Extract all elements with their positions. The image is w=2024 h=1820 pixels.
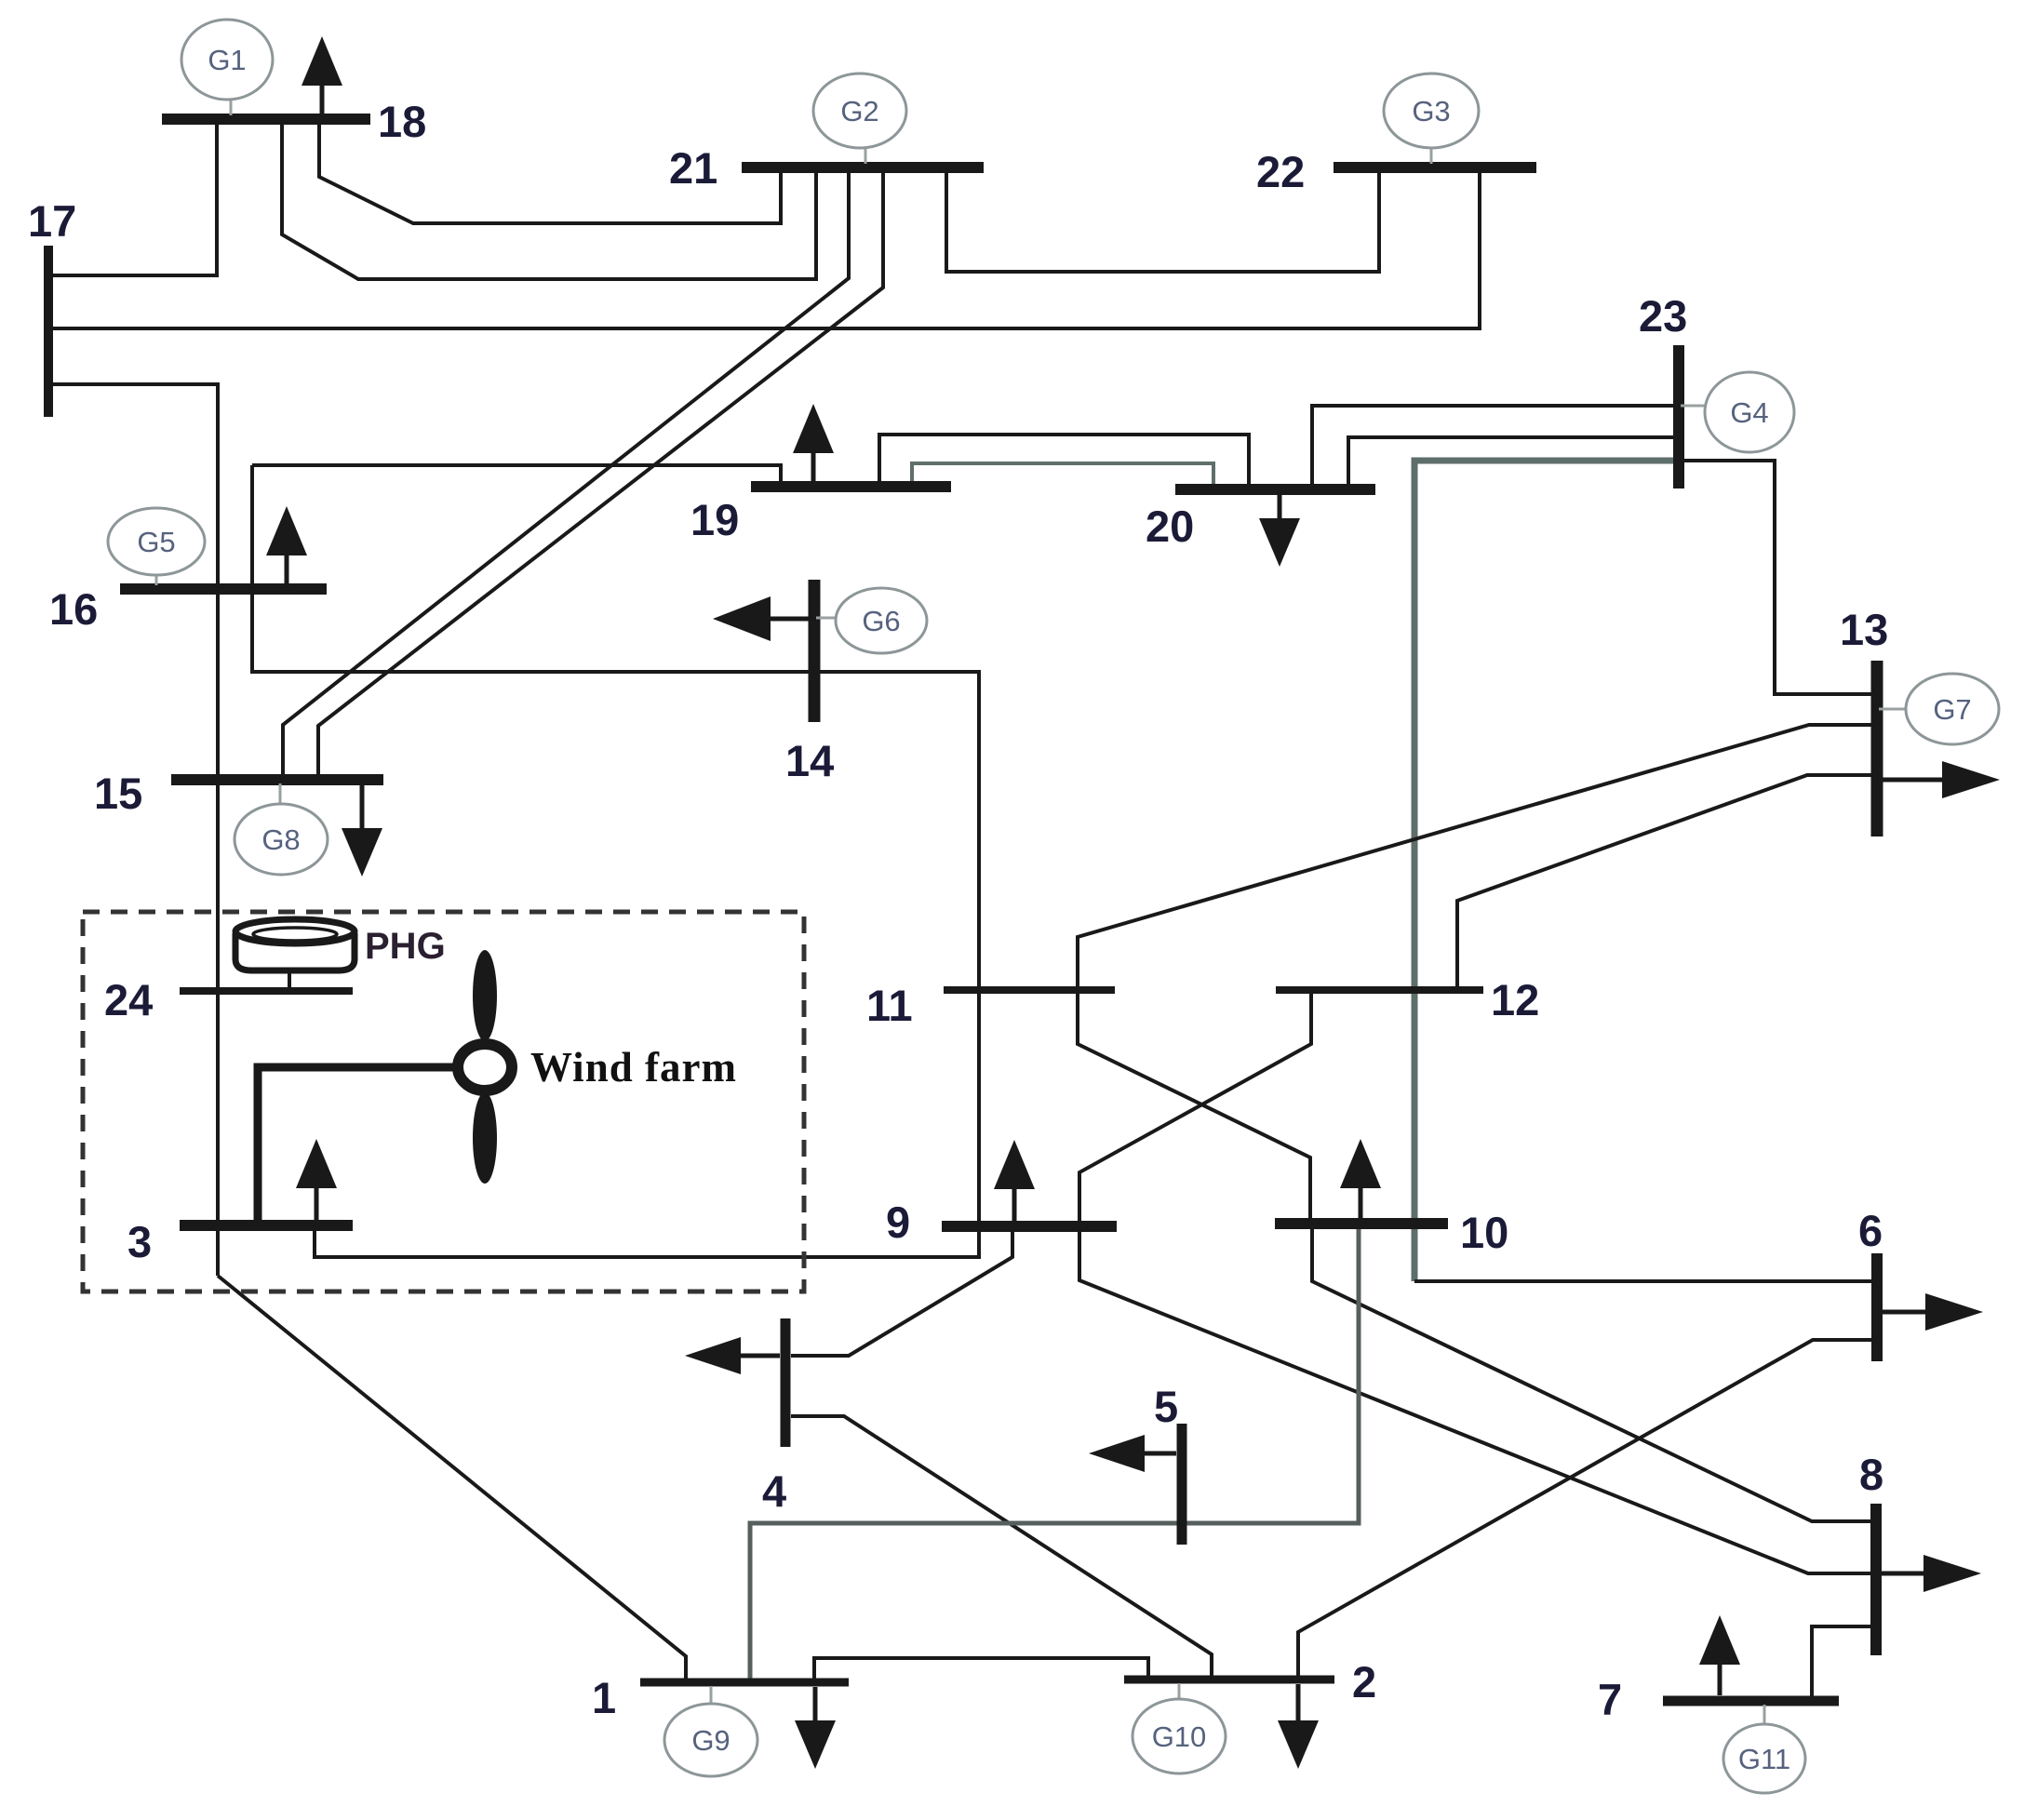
node bus 2 (busbar) [1124,1676,1334,1684]
node bus 5 (busbar) [1177,1424,1187,1545]
wire line 12-13 [1457,775,1877,990]
node bus 9 (busbar) [942,1221,1117,1232]
wire line 19-20 circuit 1 [879,435,1249,489]
svg-text:7: 7 [1598,1675,1622,1724]
load arrow (up) at bus 3 [296,1139,337,1220]
load arrow (left) at bus 5 [1089,1435,1176,1472]
node bus 18 (busbar) [162,114,370,125]
wire segment bus16 riser of line 16-19 [250,465,254,589]
node bus 17 (busbar) [44,246,53,417]
label bus 5 [1154,1382,1178,1431]
svg-text:15: 15 [94,769,142,818]
node bus 21 (busbar) [742,162,984,173]
svg-text:G7: G7 [1933,693,1971,726]
label bus 22 [1256,147,1305,196]
label bus 10 [1460,1208,1508,1257]
generator G4 [1681,372,1794,452]
label Wind farm [530,1044,737,1091]
svg-text:G10: G10 [1152,1720,1207,1753]
generator G6 [816,588,927,653]
wire line 10-11 [1078,990,1310,1224]
label bus 14 [785,736,834,785]
generator G7 [1879,674,1999,744]
svg-text:18: 18 [378,97,426,146]
label bus 24 [104,975,153,1024]
load arrow (up) at bus 18 [302,36,342,119]
node bus 6 (busbar) [1871,1253,1883,1361]
node bus 4 (busbar) [781,1318,791,1447]
wind turbine symbol (wind farm) [458,950,512,1184]
svg-text:4: 4 [762,1466,786,1516]
label bus 3 [127,1217,152,1266]
generator G11 [1723,1705,1805,1793]
load arrow (up) at bus 16 [266,506,307,589]
label bus 4 [762,1466,786,1516]
svg-text:13: 13 [1840,605,1888,654]
wire line 1-3 (from bus 3 down to bus 1) [218,1276,686,1682]
wire line 1-2 [814,1658,1148,1682]
generator G1 [181,20,273,115]
node bus 10 (busbar) [1275,1218,1448,1229]
svg-text:G6: G6 [862,605,900,637]
node bus 12 (busbar) [1276,986,1483,994]
node bus 1 (busbar) [640,1679,849,1687]
svg-text:2: 2 [1352,1657,1376,1706]
svg-text:G9: G9 [691,1724,730,1757]
wire line 15-21 circuit 2 [318,167,883,780]
wire wind farm feeder to bus 3 (thick) [258,1067,454,1225]
label bus 8 [1859,1450,1883,1499]
label bus 16 [49,584,98,634]
node bus 3 (busbar) [180,1220,353,1231]
wire line 11-14 / 9-11 (vertical through bus 11 to bus 9) [814,672,979,1226]
label bus 11 [866,981,913,1030]
svg-text:21: 21 [669,143,717,193]
wire line 9-12 [1079,990,1311,1226]
load arrow (up) at bus 19 [793,404,834,487]
label bus 15 [94,769,142,818]
wire line 3-9 [315,1225,979,1257]
label bus 6 [1858,1206,1883,1255]
node bus 15 (busbar) [171,774,383,785]
label bus 19 [690,495,739,544]
wire line 15-16 / 15-24 / 3-24 (vertical through buses 16,15,24,3) [216,589,220,1276]
generator G8 [235,783,328,875]
svg-text:G2: G2 [840,95,878,127]
svg-text:22: 22 [1256,147,1305,196]
load arrow (up) at bus 9 [994,1140,1035,1221]
label bus 13 [1840,605,1888,654]
svg-text:23: 23 [1639,291,1687,341]
svg-text:Wind farm: Wind farm [530,1044,737,1091]
wire line 18-21 circuit 1 [319,119,781,223]
label bus 12 [1491,975,1539,1024]
svg-text:6: 6 [1858,1206,1883,1255]
label bus 9 [886,1198,910,1247]
load arrow (left) at bus 4 [685,1337,780,1374]
wire line 19-20 circuit 2 [912,463,1213,489]
node bus 14 (busbar) [809,580,821,722]
load arrow (up) at bus 7 [1699,1615,1740,1695]
svg-text:G8: G8 [261,823,300,856]
generator G9 [664,1686,757,1776]
load arrow (right) at bus 13 [1883,761,2000,798]
load arrow (down) at bus 20 [1259,489,1300,567]
wire line 6-10 [1414,1279,1877,1283]
wire line 14-16 [252,589,814,672]
label bus 23 [1639,291,1687,341]
svg-text:19: 19 [690,495,739,544]
wire line 1-5 and 5-10 (through bus 5) [750,1224,1359,1682]
svg-text:G1: G1 [208,44,246,76]
svg-text:24: 24 [104,975,153,1024]
node bus 16 (busbar) [120,583,327,595]
wire line 13-23 [1679,461,1877,694]
generator G3 [1384,74,1479,164]
node bus 8 (busbar) [1870,1504,1882,1655]
wire line 4-9 [791,1226,1012,1356]
node bus 22 (busbar) [1334,162,1536,173]
label PHG [365,926,446,967]
node bus 7 (busbar) [1663,1696,1839,1706]
generator G10 [1133,1683,1226,1773]
svg-text:11: 11 [866,981,913,1030]
wire line 15-21 circuit 1 [283,167,849,780]
svg-text:1: 1 [592,1673,616,1722]
node bus 11 (busbar) [944,986,1115,994]
svg-text:17: 17 [28,196,76,246]
wire line 7-8 [1812,1626,1876,1701]
svg-text:16: 16 [49,584,98,634]
wire line 2-6 [1298,1340,1877,1679]
label bus 20 [1146,502,1194,551]
label bus 2 [1352,1657,1376,1706]
dashed zone boundary (wind farm / PHG area) [83,912,804,1291]
wire line 8-10 [1312,1224,1876,1521]
svg-text:9: 9 [886,1198,910,1247]
node bus 24 (busbar) [180,987,353,995]
wire line 21-22 [946,167,1379,272]
svg-text:G3: G3 [1412,95,1450,127]
label bus 1 [592,1673,616,1722]
label bus 18 [378,97,426,146]
svg-text:G4: G4 [1730,396,1768,429]
PHG pumped-hydro generator symbol (cylinder) at bus 24 [235,919,355,991]
wire line 18-21 circuit 2 [282,119,816,279]
node bus 19 (busbar) [751,481,951,492]
svg-text:10: 10 [1460,1208,1508,1257]
wire line 2-4 [791,1416,1212,1679]
svg-text:8: 8 [1859,1450,1883,1499]
load arrow (right) at bus 6 [1883,1293,1983,1331]
label bus 17 [28,196,76,246]
svg-text:G5: G5 [137,526,175,558]
wire line 20-23 circuit 2 [1348,437,1679,489]
generator G5 [108,508,205,585]
load arrow (down) at bus 2 [1278,1684,1319,1769]
node bus 13 (busbar) [1871,661,1883,836]
svg-text:PHG: PHG [365,926,446,967]
wire line 12-23 and 10-12 (gray vertical through bus 12 to bus 10) [1414,461,1679,1281]
load arrow (down) at bus 1 [795,1687,836,1769]
svg-text:G11: G11 [1738,1743,1790,1775]
wire line 16-17 [48,384,218,589]
load arrow (down) at bus 15 [342,780,382,877]
label bus 7 [1598,1675,1622,1724]
node bus 23 (busbar) [1673,345,1684,488]
wire line 16-19 [252,465,781,487]
svg-text:14: 14 [785,736,834,785]
node bus 20 (busbar) [1175,484,1375,495]
wire line 11-13 [1078,725,1877,990]
svg-text:12: 12 [1491,975,1539,1024]
wire line 8-9 [1079,1226,1876,1573]
wire line 17-22 [48,167,1480,328]
generator G2 [813,74,906,164]
label bus 21 [669,143,717,193]
svg-text:5: 5 [1154,1382,1178,1431]
svg-text:20: 20 [1146,502,1194,551]
load arrow (left) at bus 14 [713,596,809,641]
svg-text:3: 3 [127,1217,152,1266]
load arrow (right) at bus 8 [1882,1555,1981,1592]
load arrow (up) at bus 10 [1340,1139,1381,1218]
wire line 17-18 [48,119,217,275]
wire line 20-23 circuit 1 [1312,406,1679,489]
